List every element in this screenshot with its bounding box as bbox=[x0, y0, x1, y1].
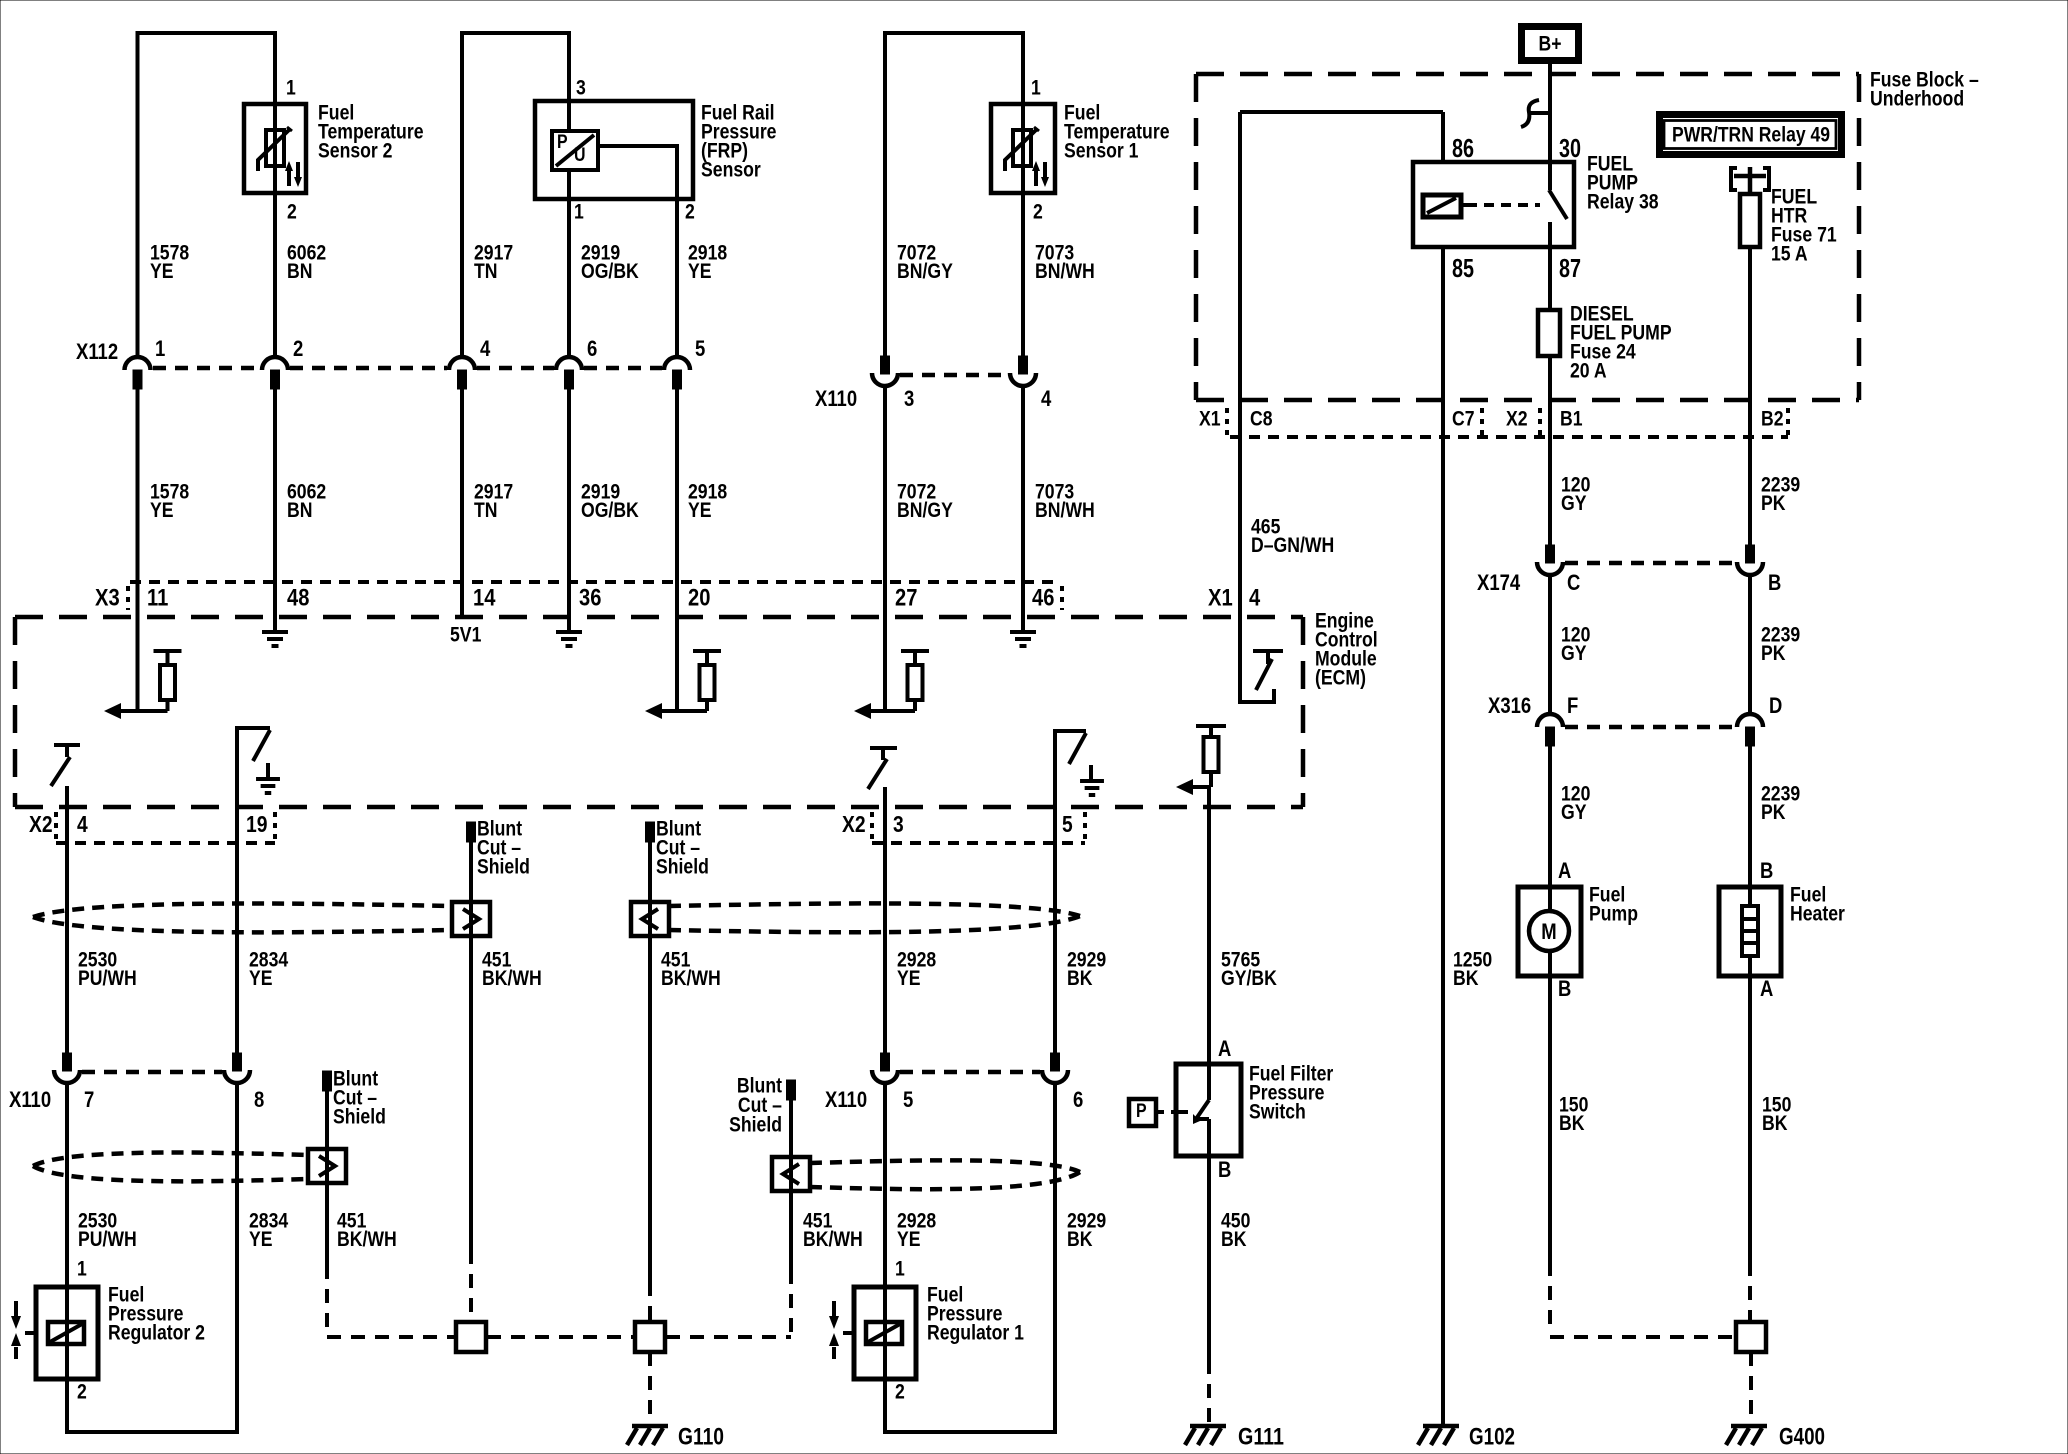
wire 6062 BN from X112-2 to ECM ground bbox=[273, 389, 277, 632]
svg-text:BK/WH: BK/WH bbox=[661, 967, 721, 990]
svg-text:B2: B2 bbox=[1761, 407, 1784, 430]
svg-text:BN: BN bbox=[287, 499, 313, 522]
svg-text:BN: BN bbox=[287, 260, 313, 283]
connector X110 pin 4 bbox=[1019, 356, 1028, 374]
svg-text:1: 1 bbox=[155, 336, 165, 361]
svg-text:BK: BK bbox=[1067, 967, 1093, 990]
connector X112 pin 5 bbox=[664, 357, 690, 370]
svg-text:20 A: 20 A bbox=[1570, 359, 1607, 382]
ECM low-side driver switch for X2 pin 4 bbox=[54, 743, 80, 747]
dashed link from P box to switch bbox=[1156, 1110, 1176, 1114]
svg-text:Shield: Shield bbox=[477, 855, 530, 878]
svg-text:2: 2 bbox=[1033, 200, 1043, 223]
svg-text:G102: G102 bbox=[1469, 1424, 1515, 1451]
svg-text:Pump: Pump bbox=[1589, 902, 1638, 925]
ECM high-side driver switch for X1 pin 4 (465 circuit) bbox=[1253, 649, 1283, 653]
svg-text:1: 1 bbox=[895, 1257, 905, 1280]
svg-text:2: 2 bbox=[685, 200, 695, 223]
wire 450 BK from FFPS to ground bbox=[1207, 1156, 1211, 1360]
connector X112 pin 1 bbox=[125, 357, 151, 370]
connector X110 pin 5 bbox=[881, 1053, 890, 1071]
wire U-loop 2928 YE to 2929 BK through Fuel Pressure Regulator 1 bbox=[885, 1083, 1055, 1432]
temperature arrows inside sensor 1 bbox=[1034, 169, 1038, 186]
svg-text:30: 30 bbox=[1559, 133, 1581, 163]
ECM pull-up resistor and input arrow for pin 20 bbox=[693, 649, 721, 653]
svg-text:2: 2 bbox=[287, 200, 297, 223]
thermistor symbol inside sensor 1 bbox=[1013, 130, 1031, 166]
svg-text:B: B bbox=[1218, 1157, 1231, 1182]
heater element symbol bbox=[1748, 887, 1752, 906]
connector X316 pin F bbox=[1537, 714, 1563, 727]
svg-text:6: 6 bbox=[587, 336, 597, 361]
pressure sensor P/U square inside FRP sensor bbox=[552, 131, 598, 170]
Fuel Rail Pressure (FRP) Sensor body bbox=[535, 101, 693, 199]
svg-text:YE: YE bbox=[249, 1228, 273, 1251]
temperature arrows inside sensor 2 bbox=[287, 169, 291, 186]
shield termination box row2 right bbox=[772, 1157, 810, 1191]
blunt cut shield stub 451 BK/WH (right) bbox=[646, 822, 655, 842]
svg-text:BK: BK bbox=[1453, 967, 1479, 990]
connector X174 pin B bbox=[1746, 545, 1755, 563]
svg-text:7: 7 bbox=[84, 1087, 94, 1112]
svg-text:15 A: 15 A bbox=[1771, 242, 1808, 265]
Fuel Filter Pressure Switch body bbox=[1176, 1064, 1241, 1156]
connector X110 pin 3 bbox=[881, 356, 890, 374]
svg-text:GY: GY bbox=[1561, 801, 1587, 824]
svg-text:19: 19 bbox=[246, 811, 268, 837]
shield lens row1 right around 2928/2929 bbox=[669, 903, 1080, 916]
svg-text:1: 1 bbox=[77, 1257, 87, 1280]
svg-text:D–GN/WH: D–GN/WH bbox=[1251, 534, 1334, 557]
svg-text:PK: PK bbox=[1761, 801, 1786, 824]
connector X316 pin D bbox=[1737, 714, 1763, 727]
svg-text:G110: G110 bbox=[678, 1424, 724, 1451]
connector X2 dotted line (pins 3/5) bbox=[872, 841, 1085, 845]
dotted separator after X3 bbox=[126, 586, 130, 610]
svg-text:B1: B1 bbox=[1560, 407, 1583, 430]
svg-text:BN/GY: BN/GY bbox=[897, 260, 953, 283]
wire 2239 PK X316-D to Fuel Heater B bbox=[1748, 746, 1752, 887]
FUEL HTR fuse holder clips bbox=[1734, 174, 1766, 179]
wire: top hat from Fuel Temp Sensor 2 pin1 wire to pin2 wire bbox=[138, 33, 276, 356]
svg-text:Shield: Shield bbox=[729, 1113, 782, 1136]
dashed wire from splice S2 to ground G110 bbox=[648, 1352, 652, 1424]
wire 451 BK/WH (left shield drain) bbox=[469, 842, 473, 1250]
wire 7072 BN/GY from X110-3 into ECM bbox=[883, 387, 887, 711]
svg-text:PU/WH: PU/WH bbox=[78, 1228, 137, 1251]
svg-text:GY: GY bbox=[1561, 492, 1587, 515]
shield drain dashed horizontal run bbox=[327, 1335, 455, 1339]
svg-text:BK/WH: BK/WH bbox=[482, 967, 542, 990]
ECM pull-up resistor and input arrow for pin 11 bbox=[154, 649, 182, 653]
svg-text:46: 46 bbox=[1032, 585, 1054, 612]
svg-text:X1: X1 bbox=[1208, 585, 1233, 612]
svg-text:TN: TN bbox=[474, 499, 498, 522]
regulator 1 valve arrows bbox=[843, 1331, 854, 1335]
connector X3 dotted line bbox=[130, 580, 1060, 584]
svg-text:YE: YE bbox=[150, 260, 174, 283]
dotted separator after X2 (3/5) bbox=[870, 812, 874, 840]
svg-text:GY: GY bbox=[1561, 642, 1587, 665]
svg-text:X174: X174 bbox=[1477, 570, 1521, 595]
ECM internal ground for pin 36 bbox=[556, 630, 582, 634]
svg-text:1: 1 bbox=[1031, 76, 1041, 99]
splice hook on B+ feed bbox=[1521, 100, 1539, 127]
svg-text:BK/WH: BK/WH bbox=[337, 1228, 397, 1251]
wire B+ to relay 38 pin 30 bbox=[1548, 64, 1552, 161]
wire 7073 BN/WH from X110-4 to ECM ground bbox=[1021, 387, 1025, 632]
svg-text:4: 4 bbox=[77, 811, 88, 837]
svg-text:C: C bbox=[1567, 570, 1580, 595]
wire: sensor1 pin 2 lead down to X110 pin 4 bbox=[1021, 193, 1025, 356]
svg-text:4: 4 bbox=[480, 336, 491, 361]
svg-text:Shield: Shield bbox=[333, 1105, 386, 1128]
Fuel Pressure Regulator 1 body bbox=[854, 1287, 916, 1379]
ECM internal ground for pin 48 bbox=[262, 630, 288, 634]
dashed mating line of connector X112 bbox=[153, 366, 260, 371]
svg-text:C8: C8 bbox=[1250, 407, 1273, 430]
svg-text:X316: X316 bbox=[1488, 693, 1531, 718]
svg-text:OG/BK: OG/BK bbox=[581, 260, 639, 283]
ECM low-side driver switch for X2 pin 3 bbox=[870, 746, 897, 750]
wire: FRP internal link from P/U square to pin 2 bbox=[598, 146, 677, 199]
wire to relay 38 pin 86 bbox=[1441, 112, 1445, 161]
connector X174 pin C bbox=[1546, 545, 1555, 563]
FUEL HTR Fuse 71 element bbox=[1740, 194, 1760, 247]
FFPS internal wire and switch blade bbox=[1207, 1064, 1211, 1100]
svg-text:PK: PK bbox=[1761, 492, 1786, 515]
svg-text:BN/WH: BN/WH bbox=[1035, 499, 1095, 522]
svg-text:87: 87 bbox=[1559, 253, 1581, 283]
svg-text:BK: BK bbox=[1221, 1228, 1247, 1251]
svg-text:BK/WH: BK/WH bbox=[803, 1228, 863, 1251]
DIESEL FUEL PUMP Fuse 24 element bbox=[1538, 310, 1560, 356]
svg-text:B: B bbox=[1768, 570, 1781, 595]
svg-text:36: 36 bbox=[579, 585, 601, 612]
svg-text:B+: B+ bbox=[1539, 32, 1562, 55]
splice square S2 bbox=[635, 1322, 665, 1352]
shield termination box row1 right bbox=[631, 902, 669, 936]
dashed mating line X316 bbox=[1565, 725, 1735, 730]
wire U-loop 2530 PU/WH to 2834 YE through Fuel Pressure Regulator 2 bbox=[67, 1083, 237, 1432]
svg-text:U: U bbox=[574, 145, 586, 166]
svg-text:X112: X112 bbox=[76, 339, 118, 364]
wire relay 85 to C7 / 1250 BK to ground G102 bbox=[1441, 246, 1445, 1424]
shield termination box row2 left bbox=[308, 1149, 346, 1183]
svg-text:X1: X1 bbox=[1199, 407, 1221, 430]
wire 2239 PK X174-B to X316-D bbox=[1748, 576, 1752, 713]
wire 120 GY X174-C to X316-F bbox=[1548, 576, 1552, 713]
svg-text:PU/WH: PU/WH bbox=[78, 967, 137, 990]
blunt cut shield stub 451 BK/WH (mid-right) bbox=[787, 1080, 796, 1100]
svg-text:GY/BK: GY/BK bbox=[1221, 967, 1277, 990]
svg-text:3: 3 bbox=[904, 386, 914, 411]
svg-text:F: F bbox=[1567, 693, 1578, 718]
svg-text:3: 3 bbox=[893, 811, 904, 837]
regulator 2 valve arrows bbox=[25, 1331, 36, 1335]
Fuel Heater body bbox=[1719, 887, 1781, 976]
svg-text:Relay 38: Relay 38 bbox=[1587, 190, 1659, 213]
svg-text:85: 85 bbox=[1452, 253, 1474, 283]
ground G102 bbox=[1423, 1424, 1459, 1429]
dotted line of C8/C7 connector row bbox=[1230, 435, 1788, 439]
wire 2530 PU/WH from ECM X2-4 down to X110-7 bbox=[65, 786, 69, 1053]
svg-text:A: A bbox=[1218, 1036, 1231, 1061]
wire inside sensor 2 body bbox=[273, 104, 277, 193]
wire 150 BK from fuel heater bbox=[1748, 976, 1752, 1262]
connector X112 pin 2 bbox=[262, 357, 288, 370]
wire: sensor2 pin 2 lead into X112 pin 2 bbox=[273, 193, 277, 356]
svg-text:X2: X2 bbox=[842, 811, 866, 837]
B+ battery feed box bbox=[1522, 27, 1579, 61]
svg-text:C7: C7 bbox=[1452, 407, 1475, 430]
svg-text:Underhood: Underhood bbox=[1870, 87, 1964, 110]
ECM driver with ground for X2 pin 5 bbox=[1055, 731, 1086, 753]
svg-text:YE: YE bbox=[897, 1228, 921, 1251]
PWR/TRN Relay 49 box bbox=[1660, 115, 1842, 155]
svg-text:14: 14 bbox=[473, 585, 496, 612]
svg-text:P: P bbox=[557, 132, 568, 153]
svg-text:5: 5 bbox=[1062, 811, 1073, 837]
svg-text:PWR/TRN Relay 49: PWR/TRN Relay 49 bbox=[1672, 123, 1830, 146]
blunt cut shield stub 451 BK/WH (left) bbox=[467, 822, 476, 842]
svg-text:X110: X110 bbox=[825, 1087, 867, 1112]
svg-text:YE: YE bbox=[249, 967, 273, 990]
svg-text:YE: YE bbox=[150, 499, 174, 522]
connector X110 pin 7 bbox=[63, 1053, 72, 1071]
wire 2917 TN from X112-4 to ECM 5V1 bbox=[460, 389, 464, 617]
dashed mating line of connector X110 pins 3-4 bbox=[900, 373, 1008, 378]
ECM dashed box top border bbox=[15, 615, 1303, 620]
svg-text:2: 2 bbox=[895, 1380, 905, 1403]
wire 451 BK/WH mid-right shield drain bbox=[789, 1100, 793, 1270]
svg-text:A: A bbox=[1760, 976, 1773, 1001]
svg-text:YE: YE bbox=[688, 260, 712, 283]
svg-text:27: 27 bbox=[895, 585, 917, 612]
svg-text:X110: X110 bbox=[9, 1087, 51, 1112]
connector X110 pin 6 bbox=[1051, 1053, 1060, 1071]
solenoid coil inside regulator 1 bbox=[866, 1322, 902, 1344]
wire 120 GY X316-F to Fuel Pump A bbox=[1548, 746, 1552, 887]
svg-text:20: 20 bbox=[688, 585, 710, 612]
wire 1578 YE from X112-1 down into ECM bbox=[136, 389, 140, 711]
svg-text:BN/WH: BN/WH bbox=[1035, 260, 1095, 283]
svg-text:5: 5 bbox=[903, 1087, 913, 1112]
wire 451 BK/WH (right shield drain) bbox=[648, 842, 652, 1282]
dashed mating line X174 bbox=[1565, 561, 1735, 566]
Fuel Pressure Regulator 2 body bbox=[36, 1287, 98, 1379]
wire 5765 GY/BK from ECM down to Fuel Filter Pressure Switch bbox=[1207, 787, 1211, 1064]
dotted separator after 5 bbox=[1083, 812, 1087, 840]
svg-text:BN/GY: BN/GY bbox=[897, 499, 953, 522]
FUEL PUMP Relay 38 box bbox=[1413, 162, 1574, 247]
svg-text:BK: BK bbox=[1762, 1112, 1788, 1135]
connector X112 pin 6 bbox=[556, 357, 582, 370]
ECM dashed box left border bbox=[13, 617, 18, 807]
wire 2929 BK from ECM X2-5 down to X110-6 bbox=[1053, 753, 1057, 1053]
svg-text:X2: X2 bbox=[1506, 407, 1528, 430]
ground G111 bbox=[1190, 1424, 1226, 1429]
svg-text:OG/BK: OG/BK bbox=[581, 499, 639, 522]
svg-text:Switch: Switch bbox=[1249, 1100, 1306, 1123]
shield drain dashed wire left going to splice row bbox=[325, 1265, 329, 1332]
dotted separator after 46 bbox=[1060, 586, 1064, 610]
Fuel Pump body bbox=[1518, 887, 1581, 976]
splice square S1 bbox=[456, 1322, 486, 1352]
svg-text:PK: PK bbox=[1761, 642, 1786, 665]
wire 465 horizontal inside fuse block bbox=[1240, 110, 1443, 114]
relay 38 dashed actuation link bbox=[1467, 203, 1540, 207]
wire 2919 OG/BK from X112-6 to ECM ground bbox=[567, 389, 571, 632]
svg-text:BK: BK bbox=[1559, 1112, 1585, 1135]
svg-text:2: 2 bbox=[293, 336, 303, 361]
svg-text:M: M bbox=[1541, 919, 1556, 944]
wire 2834 YE from ECM X2-19 down to X110-8 bbox=[235, 750, 239, 1053]
svg-text:4: 4 bbox=[1041, 386, 1052, 411]
svg-text:(ECM): (ECM) bbox=[1315, 666, 1366, 689]
solenoid coil inside regulator 2 bbox=[48, 1322, 84, 1344]
fuel pump motor symbol bbox=[1548, 887, 1552, 911]
svg-text:1: 1 bbox=[286, 76, 296, 99]
wire 451 BK/WH mid-left shield drain bbox=[325, 1091, 329, 1265]
svg-text:TN: TN bbox=[474, 260, 498, 283]
svg-text:1: 1 bbox=[574, 200, 584, 223]
wire relay 87 to fuse 24 bbox=[1548, 246, 1552, 310]
svg-text:BK: BK bbox=[1067, 1228, 1093, 1251]
wire: FRP pin 1 lead (2919 side) inside box bbox=[567, 101, 571, 131]
svg-text:3: 3 bbox=[576, 76, 586, 99]
dashed mating line X110 pins 7-8 bbox=[82, 1070, 222, 1075]
Fuel Temperature Sensor 1 body bbox=[991, 104, 1055, 193]
shield lens row2 right around 2928/2929 bbox=[810, 1160, 1080, 1172]
svg-text:5: 5 bbox=[695, 336, 705, 361]
Fuel Temperature Sensor 2 body bbox=[244, 104, 306, 193]
wire: top hat Fuel Temp Sensor 1 pin1 bbox=[885, 33, 1023, 356]
shield lens row2 left around 2530/2834 bbox=[33, 1153, 308, 1166]
svg-text:Regulator 1: Regulator 1 bbox=[927, 1321, 1024, 1344]
svg-text:X2: X2 bbox=[29, 811, 53, 837]
ECM internal ground for pin 46 bbox=[1010, 630, 1036, 634]
shield drain dashed wire right (mid-right 451) bbox=[789, 1270, 793, 1337]
blunt cut shield stub 451 BK/WH (mid-left) bbox=[323, 1071, 332, 1091]
svg-text:4: 4 bbox=[1249, 585, 1261, 612]
ECM dashed box bottom border bbox=[15, 805, 1303, 810]
svg-text:B: B bbox=[1558, 976, 1571, 1001]
svg-text:8: 8 bbox=[254, 1087, 264, 1112]
svg-text:YE: YE bbox=[897, 967, 921, 990]
svg-text:X3: X3 bbox=[95, 585, 120, 612]
svg-text:Sensor: Sensor bbox=[701, 158, 761, 181]
svg-text:5V1: 5V1 bbox=[450, 623, 482, 646]
wire 150 BK from fuel pump bbox=[1548, 976, 1552, 1262]
wire: 2919 OG/BK from FRP pin1 down to X112 pin 6 bbox=[567, 199, 571, 356]
svg-text:2: 2 bbox=[77, 1380, 87, 1403]
svg-text:Heater: Heater bbox=[1790, 902, 1845, 925]
relay 38 coil bbox=[1423, 195, 1461, 217]
pressure P box bbox=[1129, 1099, 1156, 1126]
svg-text:A: A bbox=[1558, 858, 1571, 883]
svg-text:G400: G400 bbox=[1779, 1424, 1825, 1451]
svg-text:P: P bbox=[1136, 1101, 1147, 1122]
wire: top hat FRP sensor pin3 to 2917 wire bbox=[462, 33, 569, 356]
svg-text:Sensor 2: Sensor 2 bbox=[318, 139, 393, 162]
svg-text:86: 86 bbox=[1452, 133, 1474, 163]
svg-text:48: 48 bbox=[287, 585, 309, 612]
wire: 2918 YE from FRP pin2 down to X112 pin 5 bbox=[675, 199, 679, 356]
ECM pull-up resistor and input arrow for pin 27 bbox=[901, 649, 929, 653]
ECM driver with ground for X2 pin 19 bbox=[237, 728, 270, 750]
fuse block underhood dashed box bbox=[1196, 72, 1859, 77]
svg-text:YE: YE bbox=[688, 499, 712, 522]
svg-text:Regulator 2: Regulator 2 bbox=[108, 1321, 205, 1344]
shield drain dashed drop from 451 right bbox=[648, 1282, 652, 1322]
splice square S3 for 150 BK wires bbox=[1736, 1322, 1766, 1352]
shield termination box row1 left bbox=[452, 902, 490, 936]
shield drain dashed drop from 451 left bbox=[469, 1250, 473, 1322]
dotted separator after X2 bbox=[54, 812, 58, 840]
svg-text:Shield: Shield bbox=[656, 855, 709, 878]
svg-text:B: B bbox=[1760, 858, 1773, 883]
dotted separator after 19 bbox=[273, 812, 277, 840]
wire 2918 YE from X112-5 into ECM bbox=[675, 389, 679, 711]
dashed 150 BK to ground G400 bbox=[1749, 1352, 1753, 1424]
wire fuse 71 to B2 terminal bbox=[1748, 247, 1752, 545]
svg-text:Sensor 1: Sensor 1 bbox=[1064, 139, 1139, 162]
dashed mating line X110 pins 5-6 bbox=[900, 1070, 1040, 1075]
relay 38 switch blade bbox=[1548, 161, 1552, 190]
ECM dashed box right border bbox=[1301, 617, 1306, 807]
connector X110 pin 8 bbox=[233, 1053, 242, 1071]
ground G400 bbox=[1731, 1424, 1767, 1429]
svg-text:D: D bbox=[1769, 693, 1782, 718]
svg-text:X110: X110 bbox=[815, 386, 857, 411]
connector X112 pin 4 bbox=[449, 357, 475, 370]
wire inside sensor 1 body bbox=[1021, 104, 1025, 193]
ground G110 bbox=[632, 1424, 668, 1429]
shield lens row1 left around 2530/2834 bbox=[33, 904, 452, 917]
connector X2 dotted line (pins 4/19) bbox=[56, 841, 275, 845]
wire 465 D-GN/WH from fuse block to ECM switch bbox=[1238, 112, 1242, 680]
wire 2928 YE from ECM X2-3 down to X110-5 bbox=[883, 787, 887, 1053]
thermistor symbol inside sensor 2 bbox=[266, 130, 284, 166]
svg-text:G111: G111 bbox=[1238, 1424, 1284, 1451]
ECM pull-up resistor and input arrow for 5765 circuit bbox=[1196, 724, 1226, 728]
wire fuse 24 to B1 terminal bbox=[1548, 356, 1552, 545]
svg-text:6: 6 bbox=[1073, 1087, 1083, 1112]
dashed 150 BK horizontal to splice bbox=[1550, 1335, 1736, 1339]
svg-text:11: 11 bbox=[147, 585, 168, 612]
